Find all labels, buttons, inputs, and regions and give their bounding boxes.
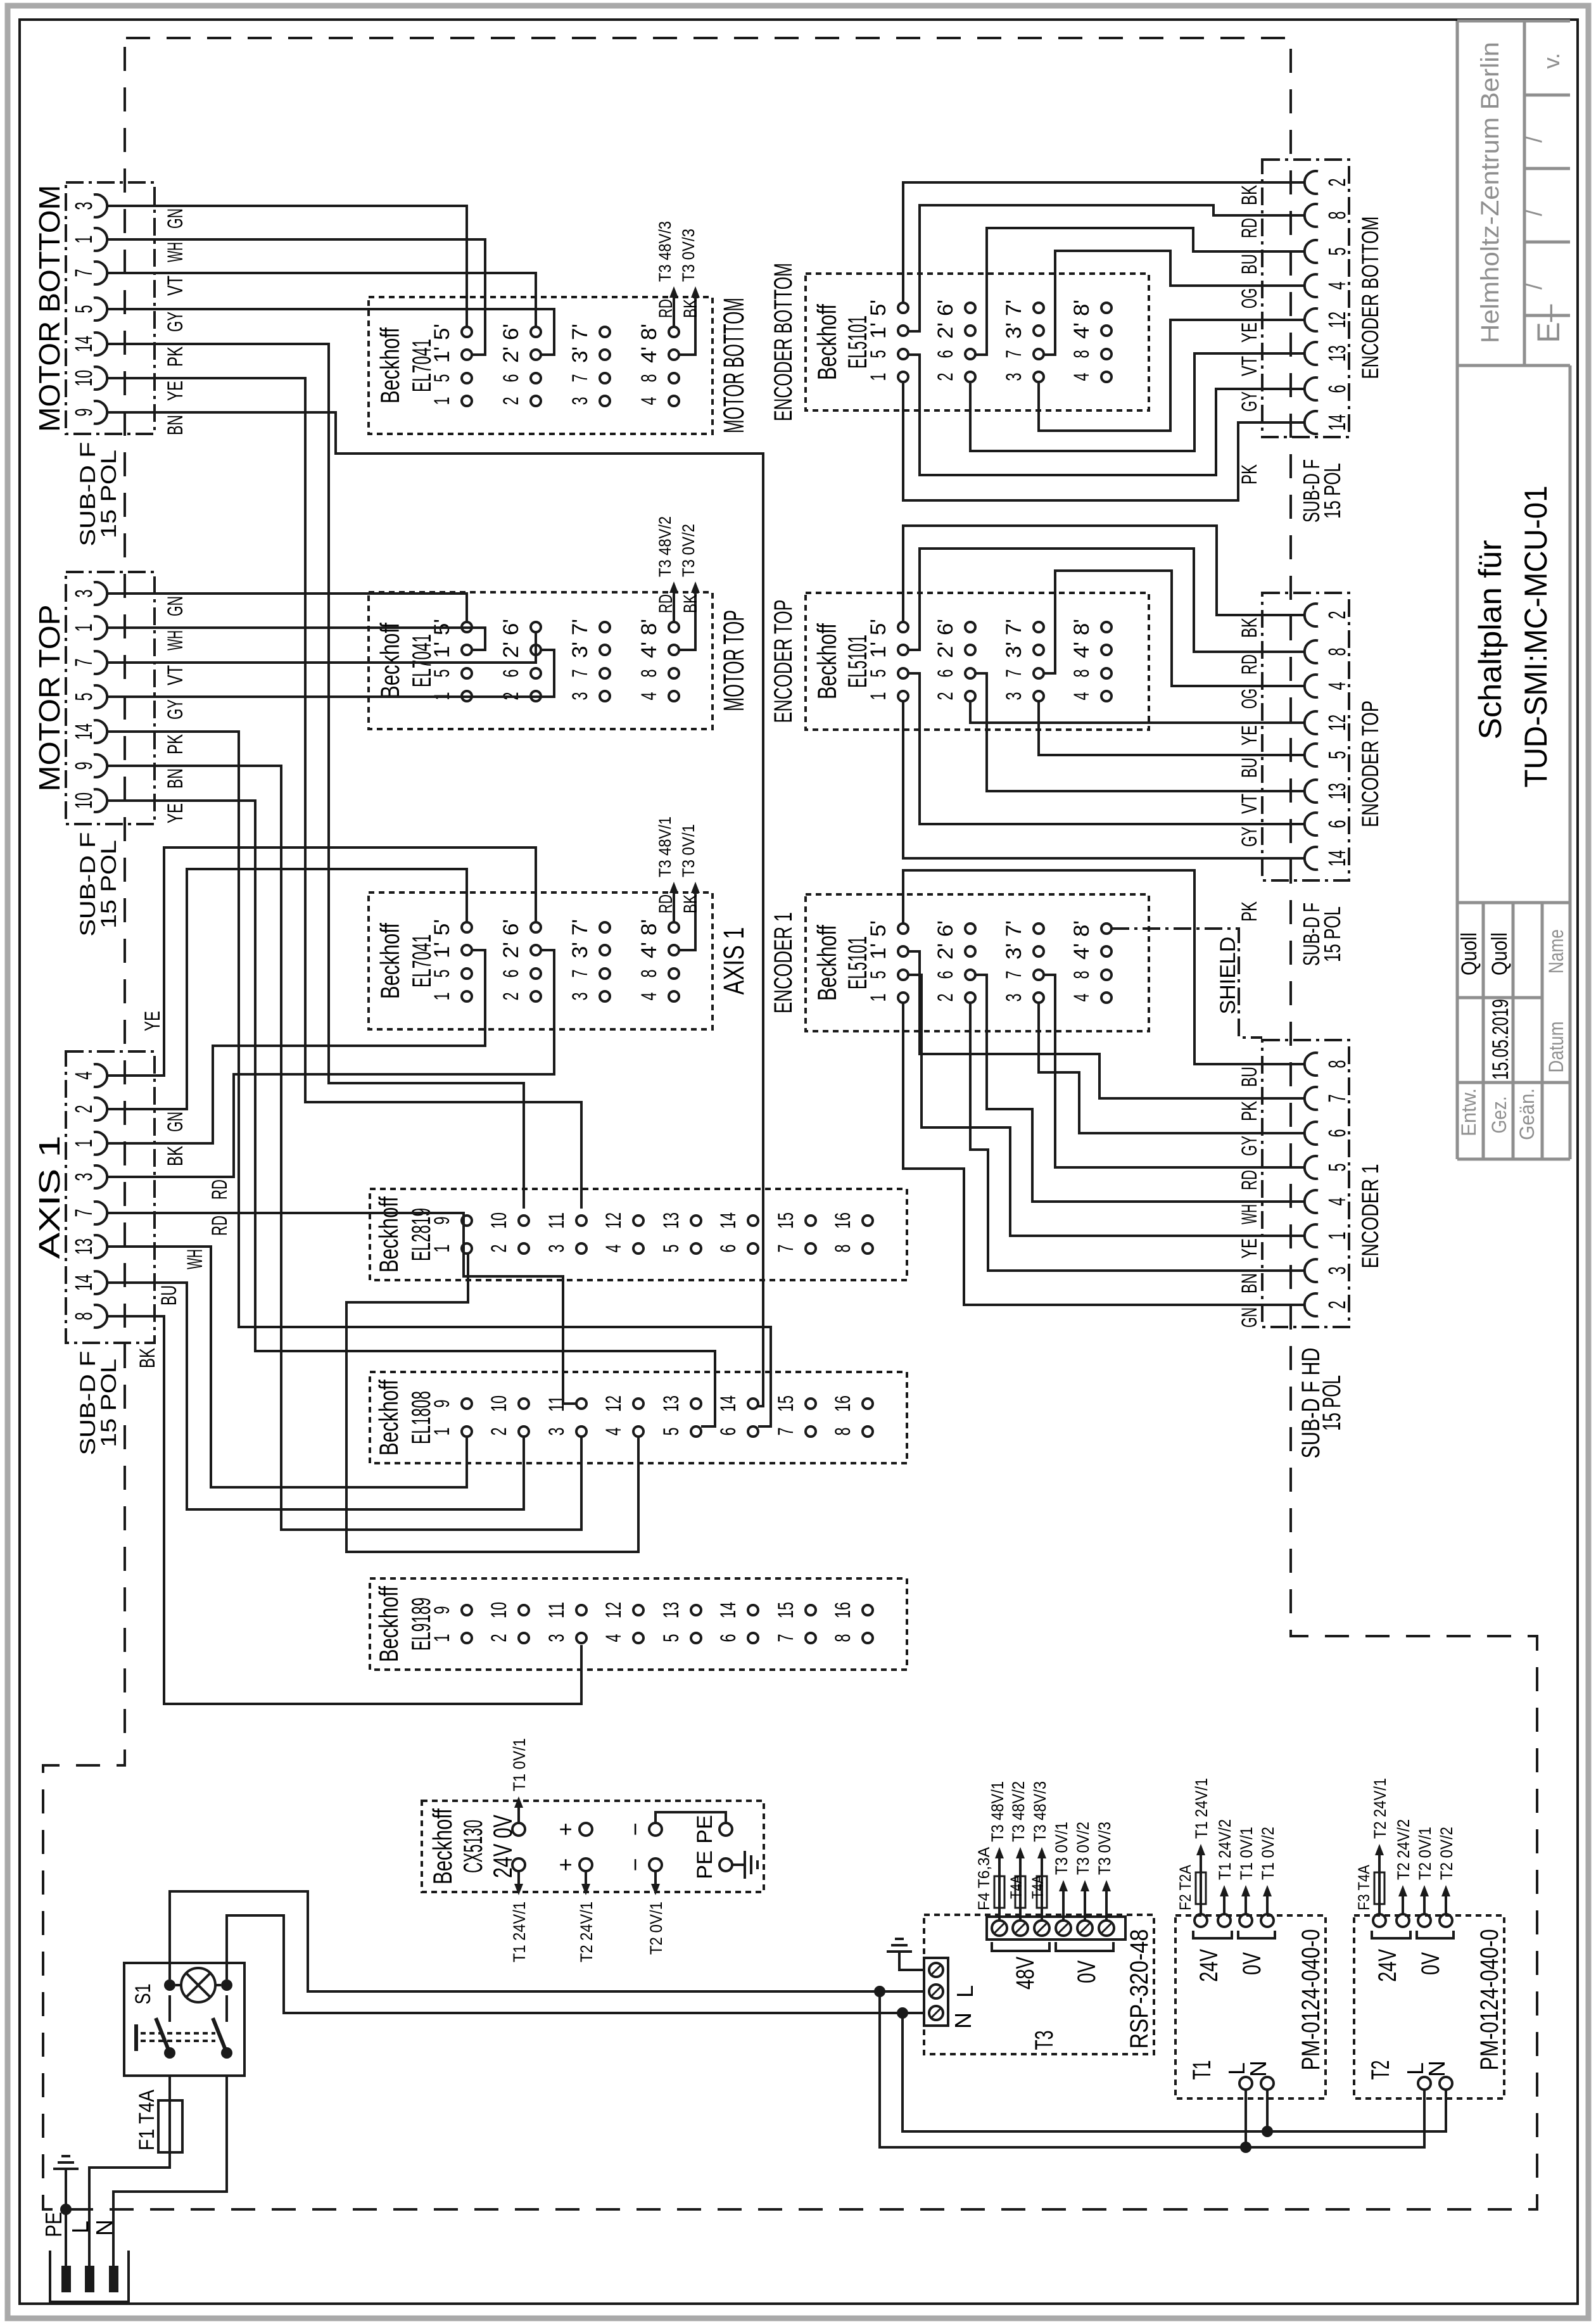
EL7041 MOTOR TOP terminal 6' <box>531 622 541 632</box>
svg-text:13: 13 <box>1324 345 1351 362</box>
svg-text:T2 24V/1: T2 24V/1 <box>577 1902 596 1962</box>
svg-text:Name: Name <box>1545 929 1567 974</box>
connector ENCODER BOTTOM pin 4 <box>1305 274 1318 297</box>
wire AXIS1 pin4 YE to EL7041-3 6' <box>155 848 536 1076</box>
EL9189 terminal 9 <box>462 1605 472 1615</box>
EL9189 terminal 16 <box>863 1605 873 1615</box>
svg-text:14: 14 <box>1324 850 1351 867</box>
EL5101 ENCODER 1 terminal 4 <box>1101 993 1111 1003</box>
EL7041 MOTOR TOP terminal 1' <box>462 645 472 655</box>
EL2819 terminal 8 <box>863 1243 873 1254</box>
svg-text:2: 2 <box>934 994 958 1002</box>
wire EL2819 terminal 1 to EL1808 terminal 4 <box>346 1254 638 1552</box>
EL1808 terminal 13 <box>691 1399 701 1409</box>
svg-text:2: 2 <box>934 373 958 381</box>
wire AXIS1 pin13 WH to EL1808 terminal 1 <box>155 1247 467 1487</box>
wire MOTOR TOP pin3 GN to EL7041-2 5' <box>155 594 467 622</box>
EL7041 AXIS 1 terminal 3' <box>600 945 610 955</box>
svg-text:7: 7 <box>1324 1095 1351 1103</box>
connector ENCODER 1 pin 7 <box>1305 1087 1318 1110</box>
EL5101 ENCODER BOTTOM terminal 5' <box>898 303 908 313</box>
EL7041 AXIS 1 48V output arrow (terminal 8') <box>673 889 675 922</box>
svg-text:PK: PK <box>1238 464 1262 485</box>
EL7041 AXIS 1 terminal 7 <box>600 968 610 979</box>
svg-text:3: 3 <box>545 1245 569 1253</box>
svg-text:8': 8' <box>637 619 661 635</box>
svg-text:MOTOR BOTTOM: MOTOR BOTTOM <box>718 298 750 433</box>
EL5101 ENCODER BOTTOM terminal 2' <box>965 326 975 336</box>
wire AXIS1 pin14 BU to EL1808 terminal 2 <box>155 1283 524 1509</box>
svg-text:1: 1 <box>430 397 454 405</box>
svg-text:BN: BN <box>163 768 187 789</box>
svg-text:1: 1 <box>430 1428 454 1436</box>
svg-text:GN: GN <box>1238 1307 1262 1328</box>
wire EL5101-1 5 to ENCODER BOTTOM pin 6 <box>908 355 1305 475</box>
svg-text:WH: WH <box>1238 1204 1262 1224</box>
S1 switch contacts <box>164 2047 175 2059</box>
svg-text:RD: RD <box>1238 218 1262 238</box>
EL5101 ENCODER BOTTOM terminal 1 <box>898 372 908 382</box>
wire EL5101-1 1 to ENCODER BOTTOM pin 14 <box>903 383 1305 500</box>
EL5101 ENCODER BOTTOM terminal 1' <box>898 326 908 336</box>
connector ENCODER TOP pin 8 <box>1305 640 1318 663</box>
wire AXIS1 pin8 BK to EL9189 terminal 3 <box>155 1316 581 1704</box>
svg-text:RD: RD <box>655 594 676 613</box>
svg-text:1: 1 <box>1324 1232 1351 1240</box>
svg-text:11: 11 <box>545 1602 569 1618</box>
svg-text:YE: YE <box>163 381 187 401</box>
svg-text:1: 1 <box>430 1245 454 1253</box>
svg-text:BK: BK <box>680 299 701 318</box>
wire EL5101-2 6 to ENCODER TOP pin 13 <box>975 673 1305 791</box>
svg-text:RD: RD <box>655 299 676 318</box>
module Beckhoff EL7041 (MOTOR TOP) box <box>369 592 712 729</box>
svg-text:N: N <box>1245 2060 1271 2077</box>
EL5101 ENCODER BOTTOM terminal 7' <box>1034 303 1044 313</box>
svg-text:/: / <box>1521 209 1547 216</box>
svg-text:Beckhoff: Beckhoff <box>812 304 842 380</box>
EL2819 terminal 3 <box>576 1243 586 1254</box>
EL7041 MOTOR TOP terminal 6 <box>531 668 541 678</box>
wire EL5101-3 5 to ENCODER 1 pin 1 <box>908 975 1305 1236</box>
EL7041 MOTOR TOP 48V output arrow (terminal 8') <box>673 588 675 622</box>
connector ENCODER 1 pin 2 <box>1305 1293 1318 1316</box>
svg-text:16: 16 <box>831 1212 855 1229</box>
power supply T2 PM-0124-040-0 box <box>1354 1915 1504 2099</box>
svg-text:1': 1' <box>866 642 890 658</box>
connector ENCODER 1 pin 3 <box>1305 1259 1318 1282</box>
connector MOTOR BOTTOM pin 9 <box>94 401 107 424</box>
svg-text:T3 0V/1: T3 0V/1 <box>679 824 698 877</box>
svg-text:1: 1 <box>71 624 98 632</box>
svg-text:AXIS 1: AXIS 1 <box>718 927 750 995</box>
wire EL5101-2 1 to ENCODER TOP pin 14 <box>903 701 1305 858</box>
wire EL5101-3 6 to ENCODER 1 pin 4 <box>975 975 1305 1202</box>
wire MOTOR TOP pin10 YE to EL1808 terminal 5 <box>155 801 715 1426</box>
svg-text:4': 4' <box>637 942 661 958</box>
svg-text:1: 1 <box>430 993 454 1001</box>
svg-text:4': 4' <box>1070 322 1094 339</box>
wire AXIS1 pin7 RD to EL1808 terminal 11 <box>155 1213 576 1404</box>
EL7041 AXIS 1 terminal 2 <box>531 991 541 1001</box>
svg-text:2': 2' <box>499 942 523 958</box>
svg-text:2: 2 <box>1324 1301 1351 1309</box>
T3 0V bracket <box>1056 1942 1113 1951</box>
EL7041 MOTOR TOP terminal 8' <box>669 622 679 632</box>
CX5130 jumper - to PE <box>655 1812 726 1823</box>
svg-text:VT: VT <box>163 276 187 296</box>
EL9189 terminal 15 <box>806 1605 816 1615</box>
wire MOTOR TOP pin14 PK to EL1808 terminal 6 <box>155 732 771 1426</box>
svg-text:5': 5' <box>866 920 890 937</box>
connector ENCODER 1 box <box>1262 1040 1349 1327</box>
svg-text:7: 7 <box>774 1634 798 1642</box>
EL7041 MOTOR TOP terminal 7 <box>600 668 610 678</box>
svg-text:N: N <box>1424 2060 1450 2077</box>
svg-text:14: 14 <box>71 723 98 740</box>
svg-text:7: 7 <box>774 1245 798 1253</box>
svg-text:BK: BK <box>680 894 701 913</box>
wire AXIS1 pin2 GN to EL7041-3 5' <box>155 869 467 1109</box>
svg-text:5: 5 <box>430 970 454 978</box>
svg-text:ENCODER TOP: ENCODER TOP <box>1357 701 1383 827</box>
svg-text:1: 1 <box>430 1634 454 1642</box>
svg-text:2: 2 <box>499 993 523 1001</box>
EL7041 MOTOR TOP terminal 5' <box>462 622 472 632</box>
module Beckhoff EL7041 (AXIS 1) box <box>369 892 712 1029</box>
connector ENCODER TOP pin 4 <box>1305 675 1318 697</box>
svg-text:/: / <box>1521 283 1547 289</box>
svg-text:RSP-320-48: RSP-320-48 <box>1125 1929 1153 2049</box>
svg-text:3: 3 <box>545 1634 569 1642</box>
svg-text:WH: WH <box>163 242 187 262</box>
svg-text:13: 13 <box>659 1212 683 1229</box>
svg-text:7: 7 <box>1002 971 1026 979</box>
EL7041 AXIS 1 terminal 8 <box>669 968 679 979</box>
EL2819 terminal 5 <box>691 1243 701 1254</box>
svg-text:5: 5 <box>71 305 98 314</box>
connector ENCODER 1 pin 1 <box>1305 1224 1318 1247</box>
EL5101 ENCODER 1 terminal 6 <box>965 970 975 980</box>
EL5101 ENCODER 1 terminal 1 <box>898 993 908 1003</box>
CX5130 terminal 24V (lower) <box>512 1858 525 1871</box>
svg-text:ENCODER 1: ENCODER 1 <box>769 912 797 1013</box>
shield connection EL5101-3 8' to ENCODER 1 connector <box>1111 929 1262 1038</box>
EL2819 terminal 1 <box>462 1243 472 1254</box>
svg-text:+: + <box>552 1858 578 1871</box>
wire EL5101-2 3 to ENCODER TOP pin 5 <box>1039 701 1305 755</box>
EL9189 terminal 6 <box>748 1633 758 1643</box>
EL1808 terminal 7 <box>806 1426 816 1437</box>
wire EL5101-3 5' to ENCODER 1 pin 8 <box>903 870 1305 1064</box>
T3 48V arrows <box>998 1853 1001 1880</box>
svg-text:PK: PK <box>163 346 187 367</box>
svg-text:BU: BU <box>157 1285 181 1305</box>
svg-text:15: 15 <box>774 1395 798 1412</box>
fuse F4 T6,3A on T3 48V/1 <box>998 1874 1001 1921</box>
wire MOTOR BOTTOM pin10 YE to EL2819 terminal 11 <box>155 378 581 1209</box>
svg-text:T1 24V/1: T1 24V/1 <box>1192 1778 1211 1839</box>
EL5101 ENCODER BOTTOM terminal 4' <box>1101 326 1111 336</box>
EL1808 terminal 5 <box>691 1426 701 1437</box>
T3 input terminal block L N PE <box>924 1958 948 2026</box>
mains inlet terminal block PE L N <box>50 2251 129 2302</box>
svg-text:4: 4 <box>1324 682 1351 690</box>
EL5101 ENCODER 1 terminal 5' <box>898 924 908 934</box>
svg-text:T3 0V/2: T3 0V/2 <box>1073 1822 1092 1875</box>
EL1808 terminal 9 <box>462 1399 472 1409</box>
svg-text:v.: v. <box>1538 53 1564 68</box>
svg-text:8: 8 <box>1324 1060 1351 1069</box>
EL7041 AXIS 1 terminal 6 <box>531 968 541 979</box>
svg-text:4': 4' <box>1070 943 1094 960</box>
wire EL5101-1 3 to ENCODER BOTTOM pin 12 <box>1039 320 1305 431</box>
connector ENCODER TOP pin 5 <box>1305 744 1318 766</box>
module Beckhoff EL2819 box <box>370 1189 907 1280</box>
svg-text:5: 5 <box>659 1428 683 1436</box>
connector ENCODER TOP pin 6 <box>1305 813 1318 835</box>
svg-text:2: 2 <box>1324 611 1351 619</box>
connector MOTOR TOP pin 3 <box>94 582 107 605</box>
connector ENCODER TOP pin 12 <box>1305 711 1318 734</box>
connector ENCODER TOP pin 2 <box>1305 604 1318 626</box>
svg-text:4: 4 <box>637 692 661 701</box>
svg-text:T2: T2 <box>1367 2060 1395 2080</box>
wire EL5101-1 5' to ENCODER BOTTOM pin 2 <box>903 182 1305 303</box>
svg-text:T1 24V/1: T1 24V/1 <box>510 1902 529 1962</box>
svg-text:BK: BK <box>136 1348 160 1368</box>
svg-text:PE: PE <box>693 1850 717 1879</box>
svg-text:5: 5 <box>430 374 454 383</box>
EL7041 MOTOR TOP terminal 5 <box>462 668 472 678</box>
EL7041 MOTOR BOTTOM terminal 4 <box>669 396 679 406</box>
svg-text:ENCODER 1: ENCODER 1 <box>1357 1164 1383 1269</box>
EL5101 ENCODER 1 terminal 4' <box>1101 946 1111 956</box>
EL9189 terminal 5 <box>691 1633 701 1643</box>
connector ENCODER TOP pin 14 <box>1305 847 1318 870</box>
EL7041 AXIS 1 0V output arrow (terminal 4') <box>679 889 695 950</box>
svg-text:3: 3 <box>71 590 98 598</box>
svg-text:4': 4' <box>1070 642 1094 658</box>
svg-text:15.05.2019: 15.05.2019 <box>1488 999 1513 1080</box>
svg-text:2: 2 <box>71 1105 98 1114</box>
svg-text:3': 3' <box>568 346 592 363</box>
svg-text:3': 3' <box>1002 943 1026 960</box>
wire MOTOR TOP pin1 WH to EL7041-2 1' <box>155 628 485 650</box>
svg-text:6': 6' <box>934 300 958 316</box>
svg-text:7: 7 <box>568 374 592 383</box>
connector ENCODER BOTTOM pin 6 <box>1305 378 1318 400</box>
svg-text:13: 13 <box>659 1395 683 1412</box>
svg-text:12: 12 <box>602 1602 626 1618</box>
svg-text:BU: BU <box>1238 1067 1262 1087</box>
svg-text:4': 4' <box>637 346 661 363</box>
EL1808 terminal 10 <box>519 1399 529 1409</box>
EL5101 ENCODER 1 terminal 2' <box>965 946 975 956</box>
wire EL5101-3 2 to ENCODER 1 pin 3 <box>970 1003 1305 1271</box>
EL2819 terminal 4 <box>633 1243 643 1254</box>
EL5101 ENCODER TOP terminal 4 <box>1101 691 1111 701</box>
EL7041 MOTOR BOTTOM terminal 8' <box>669 327 679 337</box>
svg-text:7': 7' <box>1002 920 1026 937</box>
svg-text:8: 8 <box>1324 648 1351 656</box>
svg-text:Schaltplan für: Schaltplan für <box>1472 540 1508 740</box>
EL5101 ENCODER TOP terminal 5 <box>898 668 908 678</box>
svg-text:F3 T4A: F3 T4A <box>1355 1865 1373 1910</box>
EL5101 ENCODER BOTTOM terminal 8 <box>1101 349 1111 359</box>
svg-text:F2 T2A: F2 T2A <box>1177 1865 1194 1910</box>
EL5101 ENCODER 1 terminal 7' <box>1034 924 1044 934</box>
switch S1 with lamp box <box>124 1963 244 2076</box>
EL7041 MOTOR TOP terminal 4 <box>669 691 679 701</box>
svg-text:ENCODER TOP: ENCODER TOP <box>769 600 797 723</box>
svg-text:5': 5' <box>430 324 454 340</box>
junction PE on boundary <box>60 2204 72 2215</box>
svg-text:6: 6 <box>1324 1129 1351 1138</box>
wire EL5101-2 2 to ENCODER TOP pin 12 <box>970 701 1305 723</box>
svg-text:1: 1 <box>71 1140 98 1148</box>
EL5101 ENCODER BOTTOM terminal 6 <box>965 349 975 359</box>
svg-text:T3: T3 <box>1030 2031 1058 2050</box>
svg-text:11: 11 <box>545 1212 569 1229</box>
svg-text:13: 13 <box>71 1238 98 1255</box>
EL1808 terminal 4 <box>633 1426 643 1437</box>
EL1808 terminal 6 <box>748 1426 758 1437</box>
svg-text:TUD-SMI:MC-MCU-01: TUD-SMI:MC-MCU-01 <box>1518 486 1554 788</box>
svg-text:2': 2' <box>499 346 523 363</box>
svg-text:6: 6 <box>716 1245 740 1253</box>
svg-text:T3 48V/1: T3 48V/1 <box>988 1781 1007 1842</box>
svg-text:6: 6 <box>934 350 958 359</box>
wire AXIS1 pin3 RD to EL7041-3 2' <box>155 950 554 1177</box>
svg-text:3': 3' <box>1002 322 1026 339</box>
svg-text:8': 8' <box>1070 619 1094 635</box>
EL7041 MOTOR BOTTOM terminal 3 <box>600 396 610 406</box>
svg-text:Beckhoff: Beckhoff <box>812 925 842 1001</box>
svg-text:3: 3 <box>1002 373 1026 381</box>
svg-text:RD: RD <box>1238 1170 1262 1190</box>
svg-text:T4A: T4A <box>1008 1875 1025 1899</box>
EL2819 terminal 6 <box>748 1243 758 1254</box>
svg-text:E–: E– <box>1531 304 1566 343</box>
svg-text:8: 8 <box>1070 670 1094 678</box>
svg-text:5: 5 <box>659 1634 683 1642</box>
svg-text:2': 2' <box>499 642 523 658</box>
svg-text:5: 5 <box>866 350 890 359</box>
EL5101 ENCODER BOTTOM terminal 3 <box>1034 372 1044 382</box>
connector ENCODER BOTTOM pin 8 <box>1305 204 1318 227</box>
EL5101 ENCODER 1 terminal 3' <box>1034 946 1044 956</box>
EL7041 MOTOR BOTTOM terminal 7' <box>600 327 610 337</box>
svg-text:Beckhoff: Beckhoff <box>374 1380 403 1456</box>
EL1808 terminal 8 <box>863 1426 873 1437</box>
EL9189 terminal 13 <box>691 1605 701 1615</box>
EL9189 terminal 14 <box>748 1605 758 1615</box>
svg-text:RD: RD <box>1238 654 1262 675</box>
EL2819 terminal 11 <box>576 1216 586 1226</box>
svg-text:14: 14 <box>716 1212 740 1229</box>
svg-text:3: 3 <box>568 397 592 405</box>
svg-text:13: 13 <box>659 1602 683 1618</box>
T1 L N input terminals <box>1239 2077 1252 2090</box>
svg-text:4: 4 <box>637 397 661 405</box>
svg-text:5: 5 <box>430 670 454 678</box>
EL7041 AXIS 1 terminal 5' <box>462 922 472 932</box>
T2 L N input terminals <box>1418 2077 1431 2090</box>
connector AXIS 1 pin 13 <box>94 1235 107 1258</box>
svg-text:WH: WH <box>183 1249 207 1269</box>
T1 L branch <box>1244 2090 1247 2147</box>
svg-text:BK: BK <box>1238 185 1262 205</box>
connector MOTOR TOP pin 1 <box>94 616 107 639</box>
svg-text:3: 3 <box>545 1428 569 1436</box>
T3 PE earth symbol <box>899 1952 924 1970</box>
svg-text:N: N <box>950 2012 976 2029</box>
svg-text:Datum: Datum <box>1545 1022 1567 1073</box>
module Beckhoff EL5101 (ENCODER BOTTOM) box <box>806 274 1149 410</box>
svg-text:T1 0V/1: T1 0V/1 <box>1237 1827 1256 1880</box>
wire EL5101-2 7 to ENCODER TOP pin 4 <box>1044 571 1305 686</box>
svg-text:1': 1' <box>430 346 454 363</box>
wire AXIS1 pin1 BK to EL7041-3 1' <box>155 950 485 1143</box>
EL1808 terminal 1 <box>462 1426 472 1437</box>
svg-text:T3 48V/3: T3 48V/3 <box>1030 1781 1049 1842</box>
svg-text:9: 9 <box>430 1400 454 1408</box>
EL7041 MOTOR BOTTOM terminal 5' <box>462 327 472 337</box>
svg-text:T2 24V/1: T2 24V/1 <box>1371 1778 1390 1839</box>
CX5130 signal arrow T2 24V/1 <box>585 1870 587 1889</box>
L wire from terminal to fuse F1 <box>89 2076 170 2266</box>
EL7041 MOTOR BOTTOM terminal 2 <box>531 396 541 406</box>
svg-text:5: 5 <box>1324 751 1351 759</box>
connector ENCODER TOP box <box>1262 593 1349 880</box>
svg-text:Beckhoff: Beckhoff <box>375 623 405 699</box>
svg-text:8: 8 <box>71 1312 98 1321</box>
connector ENCODER BOTTOM pin 14 <box>1305 411 1318 434</box>
svg-text:8: 8 <box>1324 212 1351 220</box>
svg-text:OG: OG <box>1238 689 1262 709</box>
EL7041 MOTOR BOTTOM terminal 6 <box>531 373 541 383</box>
svg-text:Beckhoff: Beckhoff <box>374 1197 403 1273</box>
EL5101 ENCODER 1 terminal 7 <box>1034 970 1044 980</box>
connector MOTOR TOP pin 9 <box>94 754 107 777</box>
connector MOTOR BOTTOM (SUB-D F 15 POL) box <box>66 182 155 434</box>
svg-text:VT: VT <box>163 665 187 685</box>
svg-text:9: 9 <box>430 1606 454 1615</box>
svg-text:4': 4' <box>637 642 661 658</box>
EL1808 terminal 12 <box>633 1399 643 1409</box>
wire MOTOR BOTTOM pin3 GN to EL7041-1 5' <box>155 206 467 327</box>
EL7041 MOTOR TOP terminal 7' <box>600 622 610 632</box>
svg-text:1': 1' <box>430 942 454 958</box>
svg-text:48V: 48V <box>1011 1957 1039 1990</box>
CX5130 - terminals <box>649 1823 662 1836</box>
svg-text:GN: GN <box>163 596 187 616</box>
EL5101 ENCODER TOP terminal 4' <box>1101 645 1111 655</box>
svg-text:4: 4 <box>1070 692 1094 701</box>
svg-text:2: 2 <box>487 1428 511 1436</box>
svg-text:BN: BN <box>163 415 187 435</box>
svg-text:YE: YE <box>141 1011 165 1031</box>
EL7041 AXIS 1 terminal 1' <box>462 945 472 955</box>
EL9189 terminal 4 <box>633 1633 643 1643</box>
connector ENCODER BOTTOM pin 12 <box>1305 308 1318 331</box>
svg-text:8: 8 <box>637 670 661 678</box>
wire MOTOR BOTTOM pin7 VT to EL7041-1 6' <box>155 273 536 327</box>
connector ENCODER TOP pin 13 <box>1305 780 1318 803</box>
svg-text:4: 4 <box>1324 1198 1351 1206</box>
svg-text:T3 48V/3: T3 48V/3 <box>655 221 674 282</box>
